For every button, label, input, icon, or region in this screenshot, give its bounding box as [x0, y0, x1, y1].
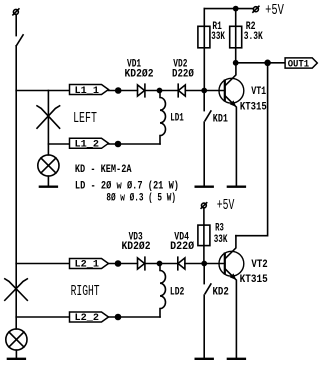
wire VD3 to VD4 [145, 263, 178, 265]
svg-text:LEFT: LEFT [73, 110, 97, 127]
wire L1.2 row to LD1 [109, 143, 161, 145]
svg-text:VT1: VT1 [251, 86, 266, 98]
svg-text:+5V: +5V [217, 197, 235, 214]
flag L2_2 [70, 312, 109, 324]
wire L2.2 row left [16, 316, 69, 318]
switch SA1 [16, 35, 23, 46]
svg-text:KT315: KT315 [240, 102, 267, 114]
wire lamp HL1 to ground [47, 176, 49, 186]
wire main vertical long [15, 46, 17, 329]
relay contact KD2 [204, 264, 211, 358]
svg-text:33K: 33K [214, 234, 228, 246]
svg-text:KD1: KD1 [213, 113, 228, 125]
wire +5V top rail [204, 8, 253, 10]
diode VD4 [178, 257, 185, 270]
wire main vertical upper segment [15, 14, 17, 35]
resistor R2 [230, 9, 242, 63]
svg-text:L2_1: L2_1 [75, 259, 100, 271]
flag L2_1 [70, 259, 109, 271]
wire L2.1 row to VD3 [109, 263, 138, 265]
inductor LD1 [160, 91, 166, 145]
relay contact KD1 [204, 91, 211, 186]
resistor R1 [198, 9, 210, 91]
svg-text:LD2: LD2 [170, 286, 185, 298]
svg-text:OUT1: OUT1 [288, 59, 310, 71]
svg-text:KD2Ø2: KD2Ø2 [122, 241, 151, 253]
svg-text:L2_2: L2_2 [75, 312, 100, 324]
wire long right vertical to VT2 [236, 63, 268, 236]
ground lamp HL1 [40, 185, 57, 187]
node R2 top junction [233, 6, 239, 12]
svg-text:33K: 33K [211, 31, 225, 43]
wire L1.1 row left [16, 90, 69, 92]
lamp HL1 [38, 155, 59, 176]
wire L1.2 row left [48, 143, 69, 145]
ground KD2 [196, 358, 213, 360]
svg-text:3.3K: 3.3K [244, 31, 263, 43]
flag L1_1 [70, 85, 109, 97]
node base junction VT1 [201, 88, 207, 94]
inductor LD2 [160, 264, 166, 318]
wire L2.2 row to LD2 [109, 316, 161, 318]
ground VT1 emitter [228, 185, 245, 187]
wire L1.1 row to VD1 [109, 90, 138, 92]
wire VD1 to VD2 [145, 90, 178, 92]
flag L1_2 [70, 138, 109, 150]
svg-text:L1_1: L1_1 [75, 85, 100, 97]
svg-text:KD2: KD2 [213, 286, 229, 298]
ground KD1 [196, 185, 213, 187]
node dot after L2_2 [115, 314, 122, 321]
ground VT2 emitter [228, 358, 245, 360]
wire VD2 to base [185, 90, 225, 92]
terminal +5V top [253, 6, 259, 12]
svg-text:+5V: +5V [265, 2, 284, 19]
node dot after L2_1 [115, 260, 122, 267]
svg-text:LD1: LD1 [170, 113, 184, 125]
node junction LD1 top [157, 88, 163, 94]
svg-text:VT2: VT2 [251, 259, 267, 271]
flag OUT1 [285, 58, 317, 71]
node dot after L1_2 [115, 141, 122, 148]
svg-text:L1_2: L1_2 [75, 139, 100, 151]
svg-text:8Ø w Ø.3 ( 5 W): 8Ø w Ø.3 ( 5 W) [106, 193, 176, 205]
indicator cross X upper [37, 106, 60, 128]
svg-text:R3: R3 [215, 222, 224, 234]
wire lamp HL2 to ground [15, 350, 17, 358]
diode VD1 [138, 84, 145, 97]
diode VD2 [178, 84, 185, 97]
node collector junction [233, 60, 239, 66]
ground lamp HL2 [8, 358, 25, 360]
lamp HL2 [6, 329, 27, 350]
wire OUT row [236, 62, 285, 64]
wire branch vertical left lamp column [47, 91, 49, 155]
wire VD4 to base [185, 263, 225, 265]
node base junction VT2 [201, 261, 207, 267]
svg-text:KT315: KT315 [240, 274, 268, 286]
transistor VT2 [219, 236, 244, 358]
node OUT junction [264, 60, 271, 67]
transistor VT1 [219, 63, 244, 186]
wire L2.1 row left [16, 263, 69, 265]
svg-text:D22Ø: D22Ø [172, 69, 194, 81]
svg-text:RIGHT: RIGHT [71, 283, 100, 300]
terminal X1 top-left [13, 9, 19, 15]
terminal +5V middle [201, 203, 207, 209]
node junction LD2 top [157, 261, 163, 267]
indicator cross X lower [5, 279, 28, 301]
svg-text:KD - KEM-2A: KD - KEM-2A [75, 164, 132, 176]
svg-text:D22Ø: D22Ø [170, 241, 194, 253]
svg-text:KD2Ø2: KD2Ø2 [125, 69, 154, 81]
diode VD3 [138, 257, 145, 270]
resistor R3 [198, 208, 210, 264]
svg-text:LD - 2Ø w Ø.7 (21 W): LD - 2Ø w Ø.7 (21 W) [75, 181, 179, 193]
node dot after L1_1 [115, 87, 122, 94]
